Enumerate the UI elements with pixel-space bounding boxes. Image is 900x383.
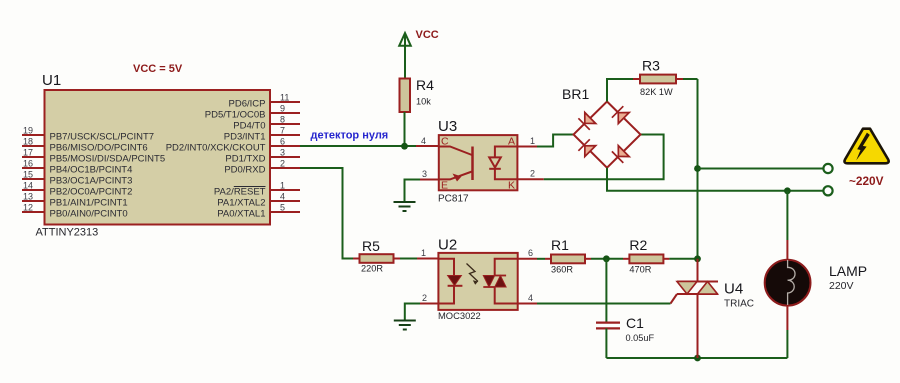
svg-text:19: 19 [23, 126, 33, 136]
svg-text:6: 6 [528, 248, 533, 258]
svg-text:ATTINY2313: ATTINY2313 [36, 227, 99, 239]
svg-text:18: 18 [23, 137, 33, 147]
svg-text:VCC = 5V: VCC = 5V [133, 63, 183, 75]
svg-text:PD1/TXD: PD1/TXD [225, 154, 265, 165]
svg-text:7: 7 [280, 126, 285, 136]
svg-text:R1: R1 [551, 237, 569, 253]
IC U1 ATTINY2313 body [36, 72, 271, 239]
svg-text:220V: 220V [829, 280, 854, 292]
wire U3 pin3 to ground [405, 180, 421, 203]
wire R5 to U2 pin1 [400, 258, 438, 260]
svg-text:K: K [508, 180, 515, 192]
svg-text:R4: R4 [416, 77, 434, 93]
U1 pin 19 PB7/USCK/SCL/PCINT7 [22, 126, 154, 143]
svg-text:TRIAC: TRIAC [724, 299, 754, 310]
svg-text:1: 1 [421, 248, 426, 258]
svg-text:5: 5 [280, 203, 285, 213]
svg-text:82K 1W: 82K 1W [640, 87, 673, 97]
svg-text:13: 13 [23, 192, 33, 202]
svg-text:PD5/T1/OC0B: PD5/T1/OC0B [205, 110, 266, 121]
lamp LAMP 220V [765, 260, 867, 306]
svg-text:BR1: BR1 [562, 86, 589, 102]
svg-text:17: 17 [23, 148, 33, 158]
svg-text:3: 3 [280, 148, 285, 158]
svg-text:PA0/XTAL1: PA0/XTAL1 [217, 209, 265, 220]
wire U2 pin4 to triac gate [537, 303, 671, 305]
svg-text:12: 12 [23, 203, 33, 213]
svg-text:4: 4 [421, 136, 426, 146]
svg-text:PB4/OC1B/PCINT4: PB4/OC1B/PCINT4 [50, 165, 133, 176]
ground symbol (U3 emitter) [394, 202, 416, 211]
U1 pin 13 PB1/AIN1/PCINT1 [22, 192, 128, 209]
lamp wire top [786, 191, 788, 260]
U1 pin 1 PA2/RESET [214, 181, 300, 198]
svg-text:2: 2 [530, 169, 535, 179]
U2 internal photo-triac [483, 259, 517, 304]
U1 pin 16 PB4/OC1B/PCINT4 [22, 159, 132, 176]
svg-text:PA1/XTAL2: PA1/XTAL2 [217, 198, 265, 209]
U1 pin 3 PD1/TXD [225, 148, 300, 165]
svg-text:4: 4 [280, 192, 285, 202]
node junction dot triac MT1/bottom line [694, 355, 701, 362]
svg-text:PB3/OC1A/PCINT3: PB3/OC1A/PCINT3 [50, 176, 133, 187]
bridge rectifier BR1 [562, 86, 641, 168]
resistor R2 470R [623, 237, 669, 275]
U2 internal light arrow [467, 264, 479, 285]
terminal circle 220V line2 [823, 186, 832, 195]
U2 pin 4 stub and number [518, 293, 537, 304]
node junction dot R1/R2/C1 [603, 255, 610, 262]
opto-triac U2 MOC3022 body [438, 237, 518, 322]
BR1 diode D2 (top-right) [612, 106, 629, 123]
svg-text:PB0/AIN0/PCINT0: PB0/AIN0/PCINT0 [50, 209, 128, 220]
svg-text:PB1/AIN1/PCINT1: PB1/AIN1/PCINT1 [50, 198, 128, 209]
wire R2 to mains rail [669, 258, 697, 260]
U2 internal LED [438, 259, 462, 304]
U1 pin 15 PB3/OC1A/PCINT3 [22, 170, 132, 187]
svg-text:2: 2 [280, 159, 285, 169]
svg-text:9: 9 [280, 104, 285, 114]
svg-text:PD2/INT0/XCK/CKOUT: PD2/INT0/XCK/CKOUT [166, 143, 266, 154]
U2 pin 6 stub and number [518, 248, 537, 259]
resistor R5 [353, 238, 400, 274]
svg-text:U1: U1 [42, 72, 61, 89]
svg-text:PB7/USCK/SCL/PCINT7: PB7/USCK/SCL/PCINT7 [50, 132, 155, 143]
svg-text:~220V: ~220V [849, 174, 884, 188]
U2 pin 1 number [421, 248, 426, 258]
U3 internal phototransistor [439, 147, 473, 182]
svg-text:4: 4 [528, 293, 533, 303]
svg-text:16: 16 [23, 159, 33, 169]
svg-text:6: 6 [280, 137, 285, 147]
svg-text:PD0/RXD: PD0/RXD [224, 165, 265, 176]
svg-text:PD4/T0: PD4/T0 [233, 121, 265, 132]
svg-text:E: E [441, 180, 448, 192]
node junction dot mains1 [694, 165, 701, 172]
svg-text:2: 2 [422, 293, 427, 303]
svg-text:PD6/ICP: PD6/ICP [229, 99, 266, 110]
U1 pin 18 PB6/MISO/DO/PCINT6 [22, 137, 148, 154]
svg-text:R5: R5 [362, 238, 380, 254]
BR1 diode D3 (bottom-left) [578, 139, 595, 156]
BR1 diode D4 (bottom-right) [612, 146, 629, 163]
U3 internal LED [489, 147, 517, 180]
U1 pin 9 PD5/T1/OC0B [205, 104, 300, 121]
U1 pin 17 PB5/MOSI/DI/SDA/PCINT5 [22, 148, 165, 165]
U3 pin 4 number [421, 136, 426, 146]
BR1 diode D1 (top-left) [578, 113, 595, 130]
opto-coupler U3 PC817 body [438, 118, 517, 205]
warning sign high voltage [844, 129, 888, 164]
wire bottom return line [606, 357, 787, 359]
resistor R3 82K 1W [633, 58, 683, 98]
svg-text:PD3/INT1: PD3/INT1 [224, 132, 266, 143]
svg-text:15: 15 [23, 170, 33, 180]
svg-text:1: 1 [280, 181, 285, 191]
svg-text:10k: 10k [416, 97, 431, 107]
terminal circle 220V line1 [823, 164, 832, 173]
svg-text:PC817: PC817 [438, 194, 469, 205]
wire U3 pin1 to bridge left corner [537, 135, 574, 147]
svg-text:PB2/OC0A/PCINT2: PB2/OC0A/PCINT2 [50, 187, 133, 198]
svg-text:R3: R3 [642, 58, 660, 74]
svg-text:R2: R2 [629, 237, 647, 253]
node junction dot R2/mains rail [694, 255, 701, 262]
U1 pin 7 PD3/INT1 [224, 126, 300, 143]
svg-text:360R: 360R [551, 265, 573, 275]
wire bridge top to R3 [607, 79, 633, 102]
svg-text:PA2/RESET: PA2/RESET [214, 187, 266, 198]
svg-text:MOC3022: MOC3022 [438, 310, 481, 321]
svg-text:1: 1 [530, 136, 535, 146]
svg-text:470R: 470R [629, 265, 651, 275]
U1 pin 8 PD4/T0 [233, 115, 300, 132]
lamp wire bottom [786, 306, 788, 359]
svg-text:C1: C1 [626, 315, 644, 331]
resistor R4 [400, 77, 435, 112]
wire R4 to node ZC [404, 112, 406, 147]
U1 pin 6 PD2/INT0/XCK/CKOUT [166, 137, 300, 154]
svg-text:8: 8 [280, 115, 285, 125]
svg-text:PB6/MISO/DO/PCINT6: PB6/MISO/DO/PCINT6 [50, 143, 148, 154]
wire R1 to node C1 [591, 258, 623, 260]
U1 pin 11 PD6/ICP [229, 93, 300, 110]
svg-text:LAMP: LAMP [829, 263, 867, 279]
wire U3 pin2 to bridge right corner [544, 135, 664, 180]
capacitor C1 [596, 259, 654, 358]
mains vertical rail (R3 down to triac MT2) [697, 79, 699, 268]
U3 pin 2 stub and number [517, 169, 543, 180]
U1 pin 2 PD0/RXD [224, 159, 300, 176]
U1 pin 4 PA1/XTAL2 [217, 192, 300, 209]
power symbol VCC [399, 29, 439, 79]
resistor R1 360R [545, 237, 591, 275]
U2 pin 2 stub and number [420, 293, 438, 304]
U3 pin 1 stub and number [517, 136, 537, 147]
net label детектор нуля [311, 130, 389, 142]
svg-text:U4: U4 [724, 281, 743, 298]
svg-text:220R: 220R [361, 264, 383, 274]
triac U4 [671, 259, 755, 358]
svg-text:3: 3 [422, 169, 427, 179]
label ~220V [849, 174, 884, 188]
wire U1 pin2 to R5 [300, 168, 357, 259]
svg-text:14: 14 [23, 181, 33, 191]
label VCC = 5V [133, 63, 183, 75]
svg-text:U3: U3 [438, 118, 457, 135]
U1 pin 12 PB0/AIN0/PCINT0 [22, 203, 128, 220]
U1 pin 5 PA0/XTAL1 [217, 203, 300, 220]
svg-text:U2: U2 [438, 237, 457, 254]
wire mains1 to terminal [698, 168, 824, 170]
U1 pin 14 PB2/OC0A/PCINT2 [22, 181, 132, 198]
svg-text:PB5/MOSI/DI/SDA/PCINT5: PB5/MOSI/DI/SDA/PCINT5 [50, 154, 166, 165]
node A junction dot (R4 / U1 pin6 / U3 pin4) [401, 143, 408, 150]
wire bridge bottom to 220V line 2 [607, 168, 824, 191]
wire U1 pin6 to U3 pin4 (zero-cross net) [300, 145, 439, 147]
wire U2 pin2 to ground [405, 304, 420, 321]
ground symbol (U2 LED cathode) [394, 321, 416, 330]
svg-text:детектор нуля: детектор нуля [311, 130, 389, 142]
wire R3 to mains rail [683, 78, 698, 80]
U3 pin 3 stub and number [420, 169, 439, 180]
wire U2 pin6 to R1 [537, 258, 545, 260]
svg-text:11: 11 [280, 93, 289, 103]
node junction dot lamp top [784, 187, 791, 194]
svg-text:VCC: VCC [416, 29, 439, 41]
svg-text:0.05uF: 0.05uF [626, 333, 655, 343]
